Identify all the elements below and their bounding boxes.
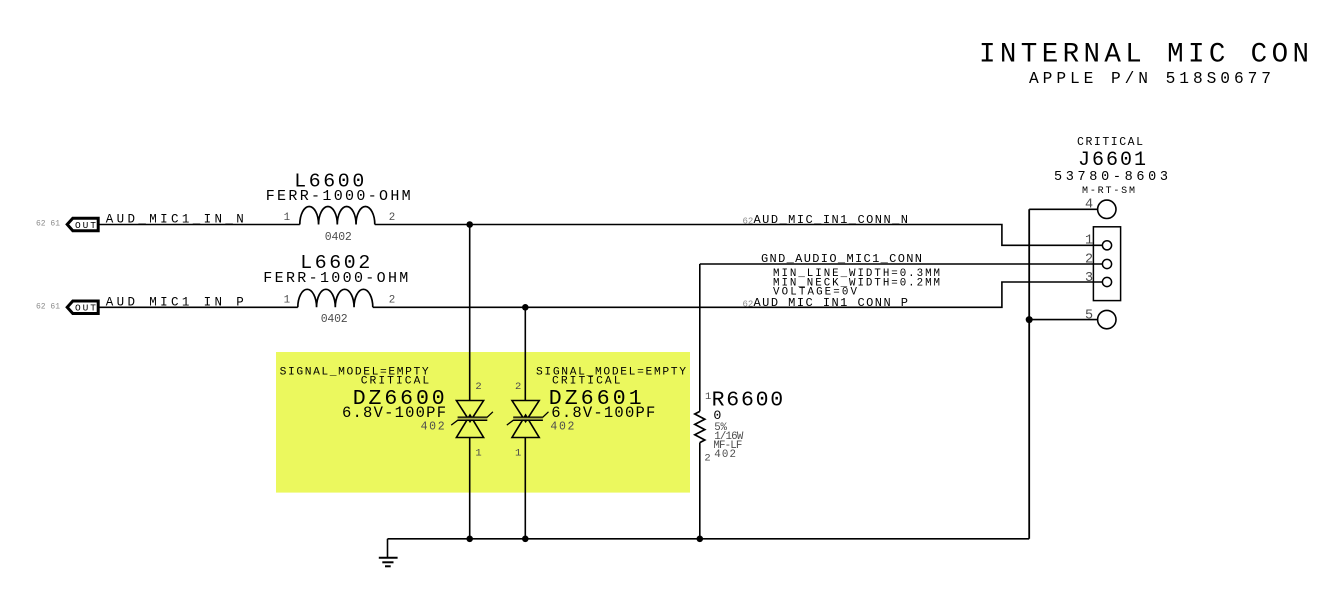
inductor L6602	[298, 289, 373, 307]
ground symbol	[379, 539, 398, 567]
resistor R6600 zigzag	[695, 411, 705, 442]
J6601 pin 4 circle	[1098, 200, 1116, 218]
svg-text:2: 2	[389, 295, 395, 307]
svg-text:1: 1	[284, 212, 290, 224]
svg-text:0402: 0402	[321, 313, 348, 326]
svg-text:2: 2	[515, 381, 521, 393]
svg-text:402: 402	[714, 449, 736, 461]
svg-text:1: 1	[1085, 233, 1093, 248]
wire GND vertical to R6600 pin1	[699, 264, 701, 411]
junction DZ6601 at ground bus	[522, 536, 529, 543]
svg-text:5: 5	[1085, 308, 1093, 323]
TVS diode DZ6601	[507, 401, 549, 438]
svg-text:M-RT-SM: M-RT-SM	[1082, 186, 1135, 197]
svg-text:FERR-1000-OHM: FERR-1000-OHM	[263, 270, 408, 287]
J6601 pin 3 circle	[1102, 277, 1111, 286]
svg-text:OUT: OUT	[75, 220, 96, 231]
J6601 pin 1 circle	[1102, 241, 1111, 250]
svg-text:0: 0	[713, 408, 721, 423]
wire to J6601 pin 4	[1029, 208, 1097, 210]
svg-text:GND_AUDIO_MIC1_CONN: GND_AUDIO_MIC1_CONN	[761, 252, 922, 266]
svg-text:2: 2	[704, 453, 710, 465]
svg-text:CRITICAL: CRITICAL	[361, 376, 430, 388]
junction node on N wire	[466, 221, 473, 228]
wire R6600 pin2 to ground bus	[699, 443, 701, 539]
wire AUD_MIC1_IN_P to L6602 pin1	[98, 306, 298, 308]
svg-text:AUD_MIC_IN1_CONN_N: AUD_MIC_IN1_CONN_N	[754, 213, 909, 227]
svg-text:2: 2	[389, 212, 395, 224]
off-page connector OUT (AUD_MIC1_IN_P)	[67, 301, 98, 314]
svg-text:62: 62	[743, 216, 754, 226]
svg-text:CRITICAL: CRITICAL	[1077, 136, 1143, 149]
wire to J6601 pin 5	[1029, 319, 1097, 321]
wire DZ6600 branch from N junction	[469, 225, 471, 401]
svg-text:APPLE P/N 518S0677: APPLE P/N 518S0677	[1029, 70, 1271, 88]
svg-text:0402: 0402	[325, 231, 352, 244]
svg-text:62 61: 62 61	[36, 220, 60, 229]
svg-text:1: 1	[515, 448, 521, 460]
svg-text:53780-8603: 53780-8603	[1054, 170, 1168, 185]
J6601 pin 2 circle	[1102, 259, 1111, 268]
svg-text:402: 402	[421, 421, 445, 434]
junction node pin5 branch	[1026, 316, 1033, 323]
svg-text:VOLTAGE=0V: VOLTAGE=0V	[773, 287, 858, 299]
svg-text:1: 1	[475, 448, 481, 460]
svg-text:FERR-1000-OHM: FERR-1000-OHM	[266, 188, 411, 205]
svg-text:62 61: 62 61	[36, 302, 60, 311]
ground bus wire	[388, 538, 1030, 540]
junction DZ6600 at ground bus	[466, 536, 473, 543]
svg-text:CRITICAL: CRITICAL	[552, 376, 621, 388]
svg-text:1: 1	[705, 391, 711, 403]
svg-text:6.8V-100PF: 6.8V-100PF	[551, 404, 655, 422]
svg-text:6.8V-100PF: 6.8V-100PF	[342, 404, 446, 422]
J6601 body box	[1093, 227, 1120, 301]
wire DZ6600 to ground bus	[469, 438, 471, 539]
wire AUD_MIC1_IN_N to L6600 pin1	[98, 224, 300, 226]
wire DZ6601 to ground bus	[524, 438, 526, 539]
junction R6600 at ground bus	[697, 536, 704, 543]
svg-text:3: 3	[1085, 271, 1093, 286]
svg-text:R6600: R6600	[712, 388, 784, 412]
wire GND_AUDIO_MIC1_CONN horizontal to pin 2	[700, 263, 1103, 265]
TVS diode DZ6600	[451, 401, 493, 438]
svg-text:2: 2	[1085, 252, 1093, 267]
svg-text:J6601: J6601	[1078, 149, 1146, 172]
junction node on P wire	[522, 304, 529, 311]
wire J6601 vertical bus	[1028, 209, 1030, 539]
wire L6602 pin2 to connector (net AUD_MIC_IN1_CONN_P)	[373, 282, 1103, 307]
svg-text:62: 62	[743, 299, 754, 309]
svg-text:OUT: OUT	[75, 303, 96, 314]
wire DZ6601 branch from P junction	[524, 307, 526, 400]
J6601 pin 5 circle	[1098, 310, 1116, 328]
off-page connector OUT (AUD_MIC1_IN_N)	[67, 218, 98, 231]
svg-text:4: 4	[1085, 198, 1093, 213]
svg-text:1: 1	[284, 295, 290, 307]
inductor L6600	[300, 207, 375, 225]
svg-text:402: 402	[550, 421, 574, 434]
svg-text:INTERNAL MIC CON: INTERNAL MIC CON	[979, 39, 1309, 70]
wire L6600 pin2 to connector (net AUD_MIC_IN1_CONN_N)	[375, 225, 1103, 246]
svg-text:2: 2	[475, 381, 481, 393]
highlight box (yellow) around DZ6600/DZ6601	[276, 352, 690, 493]
